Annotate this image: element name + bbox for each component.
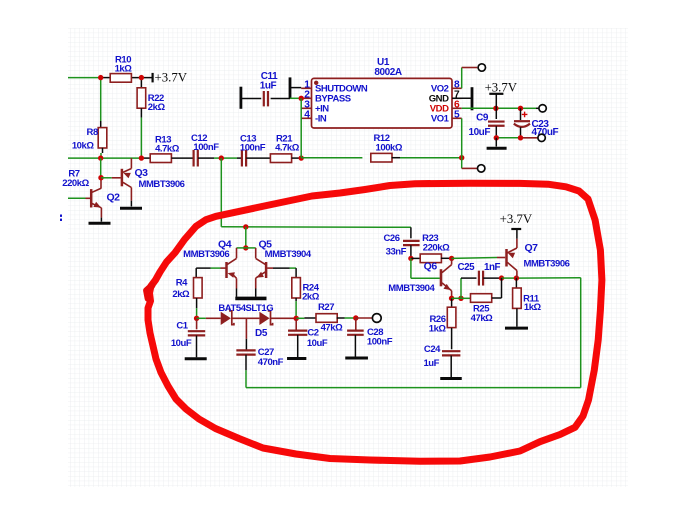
svg-text:MMBT3906: MMBT3906 bbox=[523, 259, 569, 270]
svg-text:R4: R4 bbox=[176, 278, 188, 289]
svg-text:C1: C1 bbox=[176, 320, 188, 331]
svg-text:BAT54SLT1G: BAT54SLT1G bbox=[218, 303, 273, 314]
svg-text:100nF: 100nF bbox=[240, 143, 266, 154]
svg-text:47kΩ: 47kΩ bbox=[321, 323, 344, 334]
svg-text:4: 4 bbox=[304, 109, 310, 120]
svg-text:+3.7V: +3.7V bbox=[485, 81, 518, 95]
svg-text:-IN: -IN bbox=[315, 114, 327, 125]
svg-text:D5: D5 bbox=[255, 328, 268, 339]
svg-text:220kΩ: 220kΩ bbox=[423, 242, 450, 253]
svg-text:1uF: 1uF bbox=[423, 358, 439, 369]
svg-text:R27: R27 bbox=[318, 302, 334, 313]
svg-text:2kΩ: 2kΩ bbox=[148, 102, 166, 113]
svg-text:1uF: 1uF bbox=[260, 81, 277, 92]
svg-text:4.7kΩ: 4.7kΩ bbox=[275, 143, 300, 154]
svg-text:4.7kΩ: 4.7kΩ bbox=[155, 144, 180, 155]
svg-text:C25: C25 bbox=[457, 262, 475, 273]
svg-text:470nF: 470nF bbox=[258, 357, 284, 368]
svg-text:10uF: 10uF bbox=[468, 127, 490, 138]
svg-text:220kΩ: 220kΩ bbox=[62, 178, 89, 189]
svg-text:1kΩ: 1kΩ bbox=[524, 302, 542, 313]
svg-text:+3.7V: +3.7V bbox=[500, 212, 533, 226]
svg-text:Q7: Q7 bbox=[524, 242, 538, 254]
svg-text:47kΩ: 47kΩ bbox=[471, 313, 494, 324]
svg-text:C26: C26 bbox=[383, 233, 399, 244]
svg-text:100nF: 100nF bbox=[367, 336, 393, 347]
svg-text:10uF: 10uF bbox=[171, 338, 192, 349]
svg-text:MMBT3906: MMBT3906 bbox=[183, 249, 229, 260]
svg-text:10kΩ: 10kΩ bbox=[72, 140, 95, 151]
svg-text:10uF: 10uF bbox=[307, 338, 328, 349]
svg-text:Q2: Q2 bbox=[106, 191, 120, 203]
svg-text:MMBT3904: MMBT3904 bbox=[265, 249, 312, 260]
svg-text:2kΩ: 2kΩ bbox=[302, 291, 320, 302]
svg-text:MMBT3904: MMBT3904 bbox=[388, 283, 435, 294]
svg-text:100nF: 100nF bbox=[193, 142, 219, 153]
svg-text:2kΩ: 2kΩ bbox=[172, 289, 190, 300]
svg-text:1kΩ: 1kΩ bbox=[429, 324, 447, 335]
svg-text:C9: C9 bbox=[476, 113, 489, 124]
svg-text:C24: C24 bbox=[424, 344, 441, 355]
svg-text:8002A: 8002A bbox=[374, 67, 401, 78]
svg-text:Q6: Q6 bbox=[424, 261, 438, 273]
svg-text:R8: R8 bbox=[87, 127, 98, 138]
svg-text:1kΩ: 1kΩ bbox=[115, 63, 133, 74]
svg-text:5: 5 bbox=[454, 109, 460, 120]
svg-text:VO1: VO1 bbox=[431, 114, 450, 125]
svg-text:Q3: Q3 bbox=[134, 167, 148, 179]
svg-text:+3.7V: +3.7V bbox=[155, 71, 188, 85]
svg-text:33nF: 33nF bbox=[386, 247, 407, 258]
svg-text:MMBT3906: MMBT3906 bbox=[138, 179, 184, 190]
svg-text:100kΩ: 100kΩ bbox=[376, 143, 403, 154]
svg-text:1nF: 1nF bbox=[484, 262, 501, 273]
